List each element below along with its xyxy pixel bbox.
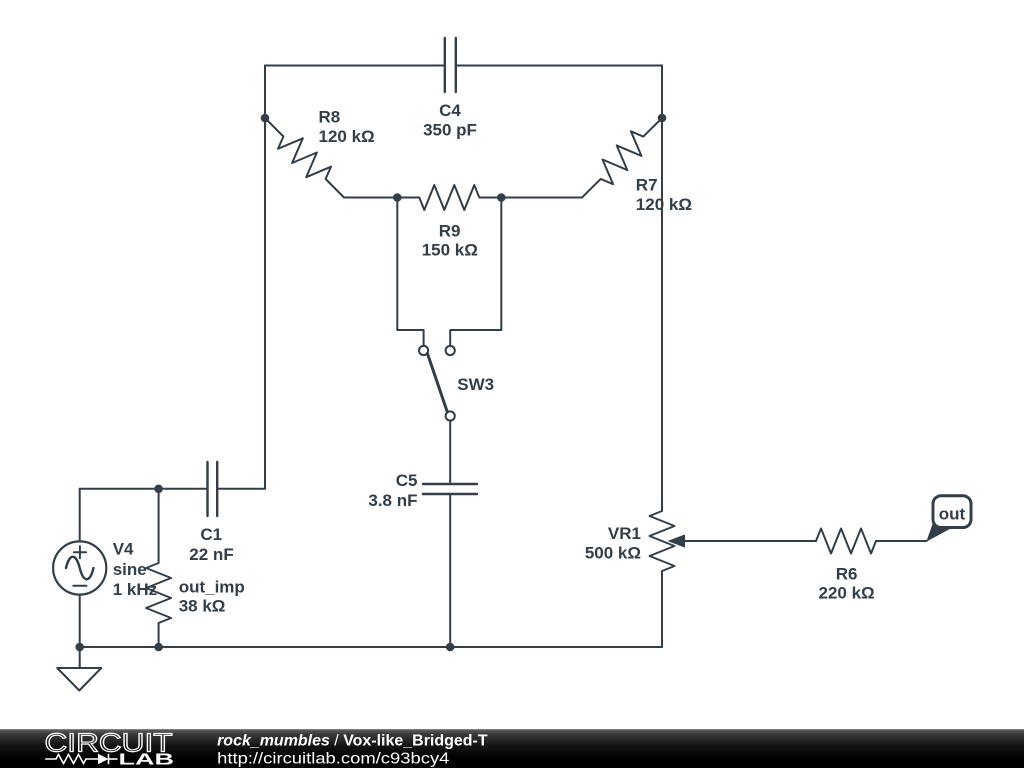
node dot C1	[154, 485, 163, 494]
wire top rail right of C4	[456, 65, 662, 67]
svg-text:R8: R8	[319, 107, 341, 126]
svg-text:C1: C1	[200, 525, 222, 544]
footer bar	[0, 729, 1024, 768]
wire V4 top lead	[79, 489, 81, 542]
svg-text:R7: R7	[636, 175, 658, 194]
svg-text:VR1: VR1	[608, 524, 641, 543]
node dot R7 top	[658, 114, 667, 123]
svg-text:500 kΩ: 500 kΩ	[585, 544, 641, 563]
svg-text:C4: C4	[439, 101, 461, 120]
wire top rail left of C4	[265, 65, 445, 67]
wire left drop from R9 to switch	[397, 198, 423, 346]
svg-text:1 kHz: 1 kHz	[113, 580, 157, 599]
resistor R6	[816, 529, 876, 554]
capacitor C4	[445, 38, 456, 92]
svg-text:220 kΩ: 220 kΩ	[819, 584, 875, 603]
out flag box	[933, 496, 971, 528]
wire VR1 bottom lead	[661, 571, 663, 647]
svg-text:120 kΩ: 120 kΩ	[636, 195, 692, 214]
svg-text:C5: C5	[396, 471, 418, 490]
wire C5 to bottom rail	[449, 494, 451, 647]
node dot rail C5	[446, 643, 455, 652]
resistor R9	[397, 185, 501, 210]
svg-text:out: out	[939, 505, 966, 524]
bottom rail	[80, 646, 662, 648]
resistor R8	[265, 118, 344, 198]
wire left vertical	[264, 66, 266, 489]
node dot R8 top	[261, 114, 270, 123]
svg-text:SW3: SW3	[457, 375, 494, 394]
potentiometer VR1	[650, 511, 675, 571]
footer logo resistor-diode	[45, 754, 117, 764]
capacitor C1	[208, 462, 218, 516]
wire R8 to R9	[344, 197, 397, 199]
svg-text:350 pF: 350 pF	[423, 121, 477, 140]
wire R6 to out flag	[876, 540, 927, 542]
svg-text:22 nF: 22 nF	[189, 545, 233, 564]
svg-text:sine: sine	[113, 560, 147, 579]
wire right vertical top (to VR1)	[661, 66, 663, 512]
svg-text:rock_mumbles / Vox-like_Bridge: rock_mumbles / Vox-like_Bridged-T	[217, 733, 488, 750]
svg-text:R6: R6	[836, 564, 858, 583]
resistor R7	[582, 118, 662, 198]
svg-text:38 kΩ: 38 kΩ	[179, 597, 226, 616]
ground	[57, 668, 101, 691]
out flag tail	[926, 524, 952, 542]
wire C1 right to left vertical	[217, 488, 265, 490]
node dot rail V4	[75, 643, 84, 652]
node dot R9 right	[497, 193, 506, 202]
svg-text:3.8 nF: 3.8 nF	[368, 491, 417, 510]
node dot rail out_imp	[154, 643, 163, 652]
svg-text:150 kΩ: 150 kΩ	[422, 240, 478, 259]
resistor out_imp	[146, 489, 171, 647]
svg-text:out_imp: out_imp	[179, 578, 245, 597]
svg-text:120 kΩ: 120 kΩ	[319, 127, 375, 146]
wire C1 left to node	[80, 488, 208, 490]
switch SW3	[419, 346, 455, 421]
svg-text:V4: V4	[113, 540, 134, 559]
wire ground stub	[79, 647, 81, 668]
node dot R9 left	[393, 193, 402, 202]
svg-text:LAB: LAB	[119, 752, 175, 768]
wire V4 bottom lead	[79, 595, 81, 647]
capacitor C5	[423, 484, 477, 494]
svg-text:R9: R9	[439, 221, 461, 240]
svg-text:http://circuitlab.com/c93bcy4: http://circuitlab.com/c93bcy4	[217, 750, 450, 767]
voltage source V4	[53, 541, 106, 594]
wire right drop from R9 to switch	[450, 198, 501, 346]
VR1 wiper arrowhead	[668, 534, 686, 547]
wiper wire VR1 to R6	[683, 540, 816, 542]
wire R7 to R9	[501, 197, 582, 199]
wire switch to C5	[449, 421, 451, 484]
